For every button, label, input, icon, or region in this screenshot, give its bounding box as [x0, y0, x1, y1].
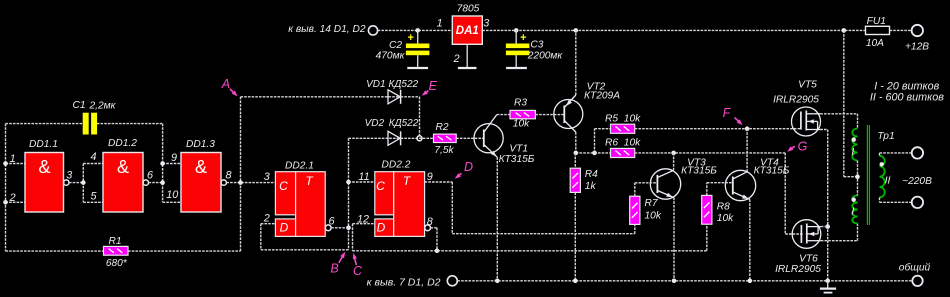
- node E junction: [417, 136, 422, 141]
- terminal к выв. 14 D1, D2: [368, 26, 377, 35]
- svg-text:C2: C2: [389, 40, 402, 51]
- svg-text:DD2.2: DD2.2: [382, 160, 411, 171]
- wire VT4 base from R8: [707, 183, 733, 196]
- svg-text:DD1.2: DD1.2: [108, 138, 137, 149]
- junction node DD1.2 out: [160, 180, 165, 185]
- svg-text:VT5: VT5: [798, 80, 817, 91]
- svg-text:IRLR2905: IRLR2905: [773, 95, 819, 106]
- svg-text:C3: C3: [530, 39, 543, 50]
- wire DD1.1 input stubs pins 1,2: [6, 164, 26, 203]
- wire net E: VD1 cathode corner down to VD2 row: [401, 97, 420, 139]
- wire VT6 drain to transformer: [821, 224, 858, 241]
- svg-text:4: 4: [90, 151, 96, 163]
- inverter bubble DD2.2 out8: [425, 225, 431, 231]
- diode VD1: [388, 90, 401, 104]
- wire VT5 drain to transformer: [820, 114, 857, 129]
- svg-text:5: 5: [90, 190, 97, 202]
- svg-text:7,5k: 7,5k: [434, 145, 454, 156]
- inverter bubble DD1.2 out: [143, 180, 148, 185]
- svg-text:A: A: [221, 77, 230, 91]
- wire VT5 source drop: [820, 130, 827, 281]
- resistor R4: [570, 168, 580, 192]
- svg-text:B: B: [330, 262, 338, 276]
- wire secondary leads: [880, 153, 912, 202]
- svg-text:&: &: [195, 157, 207, 177]
- wire VT3 collector riser: [673, 153, 675, 170]
- wire net B riser: [348, 138, 350, 250]
- resistor R8: [702, 195, 712, 224]
- svg-text:R6: R6: [605, 138, 618, 149]
- wire VD2 cathode to R2: [401, 137, 434, 139]
- junction node R4 rail: [573, 279, 578, 284]
- svg-text:КТ315Б: КТ315Б: [499, 154, 535, 165]
- inverter bubble DD1.1 out: [64, 180, 69, 185]
- mosfet VT6: [792, 220, 821, 249]
- wire R4 bottom drop: [574, 192, 576, 280]
- svg-text:к выв. 14 D1, D2: к выв. 14 D1, D2: [288, 24, 366, 35]
- nand gate DD1.2: [103, 153, 143, 213]
- resistor R2: [434, 134, 457, 142]
- svg-text:VD1: VD1: [366, 79, 385, 90]
- transistor VT2: [554, 95, 583, 132]
- svg-text:9: 9: [427, 171, 433, 183]
- wire VT1 emitter drop: [496, 157, 498, 280]
- svg-text:R5: R5: [605, 114, 618, 125]
- junction node center tap: [855, 174, 860, 179]
- svg-text:DD1.1: DD1.1: [29, 139, 58, 150]
- wire VT3 base from R7: [635, 183, 658, 196]
- junction node rail C3: [514, 28, 519, 33]
- wire R2 to VT1 base: [456, 137, 484, 139]
- inverter bubble DD1.3 out: [221, 180, 226, 185]
- svg-text:R2: R2: [435, 122, 448, 133]
- junction node out8 net: [435, 249, 440, 254]
- winding polarity dot I upper: [852, 138, 856, 142]
- svg-text:E: E: [429, 79, 438, 93]
- flip-flop DD2.1: [275, 172, 325, 237]
- wire DD2.2 out8 drop: [431, 228, 438, 251]
- svg-text:1k: 1k: [585, 181, 597, 192]
- label B with arrow: [330, 252, 345, 276]
- label G with arrow: [787, 140, 808, 154]
- transistor VT1: [474, 115, 503, 158]
- svg-text:DA1: DA1: [456, 25, 479, 37]
- wire DD2.1 out6 to net B: [331, 227, 348, 229]
- svg-text:~220В: ~220В: [902, 176, 932, 187]
- wire DD1.3 out to DD2.1 pin3: [226, 182, 275, 184]
- terminal +12V: [912, 25, 923, 36]
- label E with arrow: [422, 79, 438, 96]
- nand gate DD1.1: [25, 153, 64, 213]
- svg-text:VT6: VT6: [799, 254, 818, 265]
- svg-text:D: D: [377, 221, 386, 235]
- junction node C1 drop: [160, 161, 165, 166]
- wire VT2 collector drop: [575, 132, 577, 153]
- transistor VT3: [650, 169, 680, 199]
- junction node VT3 emitter rail: [672, 279, 677, 284]
- junction node rail C2: [415, 28, 420, 33]
- label D with arrow: [455, 160, 473, 179]
- junction node R5 tap: [592, 151, 597, 156]
- nand gate DD1.3: [181, 153, 221, 213]
- terminal common: [912, 276, 922, 286]
- svg-text:R1: R1: [108, 236, 121, 247]
- wire VT6 source to common: [821, 226, 828, 228]
- wire VT4 emitter drop: [749, 199, 751, 280]
- wire net B to DD2.2 pin11: [349, 181, 375, 183]
- junction node VT1 emitter rail: [495, 279, 500, 284]
- wire oscillator feedback left vertical + C1 top wire + R1 bottom wire: [6, 124, 241, 252]
- svg-text:КТ315Б: КТ315Б: [681, 165, 717, 176]
- wire net A riser and top run to VD1: [241, 97, 401, 251]
- svg-text:2: 2: [9, 192, 16, 204]
- svg-text:11: 11: [358, 171, 369, 183]
- svg-text:II - 600 витков: II - 600 витков: [870, 91, 944, 103]
- junction node DD1.1 out: [81, 180, 86, 185]
- wire net D: DD2.2 pin9 to R7: [425, 182, 635, 234]
- svg-text:10k: 10k: [717, 213, 734, 224]
- junction node sources rail: [825, 279, 830, 284]
- svg-text:C1: C1: [72, 100, 85, 111]
- capacitor C2: [406, 30, 430, 68]
- wire net F: R5 to VT5 gate: [635, 128, 801, 130]
- wire VT1 collector to R3: [497, 114, 510, 116]
- svg-text:&: &: [117, 157, 129, 177]
- junction node rail VT2: [574, 28, 579, 33]
- wire VT2 collector node row: [576, 152, 611, 154]
- resistor R7: [630, 196, 640, 224]
- wire net B top corner to VD2 anode: [349, 137, 401, 139]
- svg-text:DD2.1: DD2.1: [285, 161, 314, 172]
- svg-text:+12В: +12В: [905, 42, 929, 53]
- svg-text:1: 1: [437, 17, 443, 29]
- svg-text:G: G: [798, 140, 808, 154]
- junction node pin2: [3, 200, 8, 205]
- svg-text:2,2мк: 2,2мк: [89, 101, 117, 112]
- transformer Tr1 secondary winding II: [880, 156, 885, 198]
- junction node VT2 coll: [574, 151, 579, 156]
- transformer core: [867, 125, 869, 225]
- wire net G: R6 to VT6 gate: [635, 153, 803, 234]
- label A with arrow: [221, 77, 238, 96]
- capacitor C3: [506, 30, 530, 68]
- svg-text:10k: 10k: [645, 211, 662, 222]
- wire R5 branch riser: [595, 129, 611, 153]
- terminal к выв. 7 D1, D2: [447, 276, 457, 286]
- svg-text:КД522: КД522: [388, 79, 418, 90]
- svg-text:3: 3: [264, 171, 270, 183]
- voltage regulator DA1 7805: [452, 16, 482, 44]
- svg-text:+: +: [520, 32, 526, 44]
- svg-text:КД522: КД522: [389, 118, 419, 129]
- fuse FU1: [866, 26, 890, 34]
- svg-text:КТ209А: КТ209А: [584, 91, 620, 102]
- diode VD2: [388, 131, 401, 145]
- svg-text:Тр1: Тр1: [877, 131, 894, 142]
- svg-text:9: 9: [171, 152, 177, 164]
- svg-text:10k: 10k: [624, 114, 641, 125]
- svg-text:R7: R7: [645, 198, 658, 209]
- svg-text:7805: 7805: [457, 4, 480, 15]
- svg-text:D: D: [280, 221, 289, 235]
- svg-text:к выв. 7 D1, D2: к выв. 7 D1, D2: [367, 277, 441, 289]
- wire common bottom rail: [457, 280, 911, 282]
- wire center tap from rail: [844, 30, 858, 176]
- wire VT3 emitter drop: [673, 198, 675, 281]
- label F with arrow: [723, 106, 743, 125]
- svg-text:10: 10: [166, 189, 178, 201]
- resistor R6: [611, 148, 635, 157]
- svg-text:1: 1: [10, 153, 16, 165]
- svg-text:I: I: [851, 146, 854, 158]
- svg-text:R4: R4: [585, 169, 598, 180]
- svg-text:общий: общий: [899, 262, 931, 274]
- svg-text:DD1.3: DD1.3: [186, 139, 215, 150]
- svg-text:КТ315Б: КТ315Б: [754, 165, 790, 176]
- wire +12V rail: [378, 29, 912, 31]
- winding polarity dot II: [880, 162, 884, 166]
- svg-text:2: 2: [453, 53, 460, 65]
- svg-text:8: 8: [225, 170, 231, 182]
- svg-text:680*: 680*: [106, 258, 128, 269]
- svg-text:&: &: [38, 157, 50, 177]
- svg-text:FU1: FU1: [867, 16, 886, 27]
- terminal ~220V bottom: [912, 197, 923, 208]
- flip-flop DD2.2: [375, 172, 425, 237]
- wire primary middle link: [857, 161, 859, 196]
- transformer Tr1 primary winding I upper: [852, 129, 857, 161]
- svg-text:C: C: [353, 264, 363, 278]
- svg-text:+: +: [407, 32, 413, 44]
- wire VT2 emitter to rail: [575, 30, 577, 95]
- svg-text:2200мк: 2200мк: [527, 51, 564, 62]
- resistor R5: [611, 124, 635, 133]
- svg-text:D: D: [464, 160, 473, 174]
- wire DD1.2 output riser to DD1.3 inputs and C1 drop: [149, 124, 182, 203]
- junction node VT4 emitter rail: [748, 279, 753, 284]
- svg-text:C: C: [279, 179, 288, 193]
- terminal ~220V top: [912, 147, 923, 158]
- svg-text:3: 3: [483, 17, 489, 29]
- label C with arrow: [353, 253, 363, 278]
- junction node VT3 coll: [671, 151, 676, 156]
- svg-text:R8: R8: [717, 202, 730, 213]
- ground symbol: [820, 281, 836, 293]
- junction node VT5 source VT6: [825, 224, 830, 229]
- junction node F: [745, 126, 750, 131]
- svg-text:10k: 10k: [624, 138, 641, 149]
- DA1 pin 2 ground stub: [458, 44, 477, 68]
- wire R3 to VT2 base: [535, 114, 564, 116]
- svg-text:470мк: 470мк: [376, 51, 406, 62]
- capacitor C1: [83, 113, 97, 135]
- svg-text:VD2: VD2: [365, 118, 385, 129]
- winding polarity dot I lower: [852, 198, 856, 202]
- svg-text:10k: 10k: [513, 119, 530, 130]
- inverter bubble DD2.1 out6: [325, 225, 331, 231]
- wire net C: DD2.2 pin12 feedback and run to R8: [353, 224, 707, 251]
- wire R4 top stub: [574, 153, 576, 168]
- junction node B out6: [346, 226, 351, 231]
- svg-text:IRLR2905: IRLR2905: [775, 264, 821, 275]
- resistor R3: [510, 110, 535, 118]
- svg-text:II: II: [885, 175, 891, 187]
- svg-text:I: I: [851, 206, 854, 218]
- svg-text:2: 2: [263, 213, 270, 225]
- svg-text:6: 6: [147, 170, 153, 182]
- wire VT4 collector riser to F: [746, 129, 748, 172]
- svg-text:10A: 10A: [866, 38, 884, 49]
- mosfet VT5: [792, 107, 821, 136]
- wire DD1.1 output to DD1.2 inputs: [69, 164, 103, 203]
- svg-text:R3: R3: [514, 98, 527, 109]
- transistor VT4: [725, 170, 755, 200]
- resistor R1: [104, 246, 129, 255]
- junction node rail tap: [842, 28, 847, 33]
- junction node pin1: [3, 161, 8, 166]
- svg-text:C: C: [376, 179, 385, 193]
- junction node B pin11: [346, 180, 351, 185]
- wire DD2.1 pin2 feedback loop: [261, 224, 349, 250]
- transformer Tr1 primary winding I lower: [852, 196, 857, 224]
- junction node A out8: [238, 180, 243, 185]
